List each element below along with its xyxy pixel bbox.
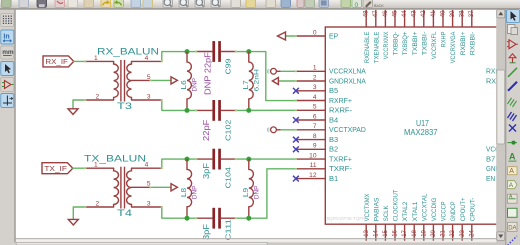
wire T4 pin4 up to TX top rail [162, 159, 196, 168]
pin 2 GNDRXLNA [296, 75, 366, 86]
svg-text:DNP: DNP [192, 185, 199, 199]
power port VCC (VCCRXLNA) [267, 68, 280, 74]
svg-text:TX_IF: TX_IF [44, 164, 67, 173]
svg-text:3: 3 [147, 200, 151, 207]
svg-text:L8: L8 [179, 188, 188, 197]
wire RX bottom rail to RXRF- [236, 109, 296, 111]
svg-text:VCCTXPAD: VCCTXPAD [329, 127, 366, 134]
svg-text:44: 44 [402, 10, 408, 17]
wire EP port [286, 35, 296, 37]
junction RX bottom rail / L6 [185, 108, 190, 113]
wire T3 pin5 stub [151, 79, 172, 81]
svg-text:3pF: 3pF [202, 163, 211, 179]
pin 23 CPOUT+ [460, 198, 467, 242]
svg-text:12: 12 [309, 172, 317, 179]
svg-text:0: 0 [355, 2, 359, 9]
pin 6 B4 [296, 114, 338, 125]
svg-text:C102: C102 [224, 120, 233, 141]
wire T3 pin3 down to RX bottom rail [162, 100, 196, 110]
svg-text:21: 21 [441, 229, 447, 236]
svg-text:XTAL1: XTAL1 [412, 201, 419, 221]
svg-text:C104: C104 [224, 167, 233, 188]
svg-text:5QFN-EP48-TQFN: 5QFN-EP48-TQFN [327, 216, 366, 221]
svg-text:CPOUT+: CPOUT+ [460, 198, 467, 222]
svg-text:41: 41 [431, 10, 437, 17]
port tag T3 center tap [171, 77, 177, 84]
svg-text:5: 5 [313, 104, 317, 111]
svg-text:4: 4 [145, 162, 149, 169]
pin 46 VCCRXMX [383, 10, 390, 60]
svg-text:CLOCKOUT: CLOCKOUT [393, 190, 400, 222]
svg-text:DA: DA [508, 225, 516, 231]
svg-text:C99: C99 [224, 59, 233, 75]
junction TX rail / L9 [246, 157, 251, 162]
pin 14 PABIAS [373, 197, 380, 241]
svg-text:TXENABLE: TXENABLE [373, 31, 380, 63]
svg-text:VCCDIG: VCCDIG [431, 198, 438, 222]
pin end markers [84, 35, 297, 208]
svg-text:13: 13 [364, 229, 370, 236]
vertical scrollbar [496, 9, 505, 245]
inductor L6 [179, 52, 198, 111]
svg-text:VCCXTAL: VCCXTAL [421, 193, 428, 221]
svg-text:0: 0 [313, 29, 317, 36]
svg-text:B1: B1 [329, 176, 338, 183]
svg-text:1: 1 [313, 65, 317, 72]
ground GND1 [68, 109, 78, 115]
wire RX top rail to RXRF+ [236, 52, 296, 101]
power port (EP) [278, 32, 286, 40]
pin 21 VCCCP [441, 201, 448, 241]
svg-text:TXBBI-: TXBBI- [421, 32, 428, 56]
svg-text:37: 37 [469, 10, 475, 17]
wire VCCRXLNA port [281, 70, 296, 72]
pin 24 CPOUT- [469, 198, 476, 242]
svg-text:EP: EP [329, 33, 339, 40]
svg-text:VCCRXMX: VCCRXMX [383, 31, 390, 59]
svg-text:PABIAS: PABIAS [373, 197, 380, 221]
pin 19 VCCXTAL [421, 193, 428, 241]
svg-text:VCCRXLNA: VCCRXLNA [329, 69, 366, 76]
no-connect X [293, 88, 299, 94]
left toolbar buttons [1, 14, 14, 108]
svg-text:VCCRXFL: VCCRXFL [431, 31, 438, 59]
svg-text:7: 7 [313, 123, 317, 130]
svg-text:XTAL2: XTAL2 [402, 201, 409, 221]
svg-text:DNP: DNP [192, 77, 199, 91]
pin 20 VCCDIG [431, 198, 438, 242]
pin 47 TXENABLE [373, 10, 380, 63]
junction TX bottom rail / L9 [246, 216, 251, 221]
svg-text:42: 42 [421, 10, 427, 17]
svg-text:3: 3 [147, 93, 151, 100]
horizontal scrollbar [16, 242, 497, 245]
svg-text:1: 1 [94, 162, 98, 169]
svg-text:3: 3 [313, 84, 317, 91]
pin 48 RXENABLE [364, 10, 371, 63]
right toolbar background [505, 9, 520, 245]
svg-text:C111: C111 [224, 219, 233, 240]
pin 4 RXRF+ [296, 94, 352, 105]
svg-text:8: 8 [313, 133, 317, 140]
svg-text:A: A [509, 168, 514, 175]
svg-text:39: 39 [450, 10, 456, 17]
svg-text:47: 47 [373, 10, 379, 17]
svg-text:2: 2 [313, 75, 317, 82]
port tag T4 center tap [171, 184, 177, 191]
pin 38 RXBBI+ [460, 10, 467, 56]
svg-text:MAX2837: MAX2837 [404, 127, 438, 137]
pin 7 VCCTXPAD [296, 123, 366, 134]
svg-text:46: 46 [383, 10, 389, 17]
capacitor C104 [195, 149, 237, 170]
svg-text:L7: L7 [241, 80, 250, 89]
pin 43 TXBBI+ [412, 10, 419, 56]
svg-text:L9: L9 [241, 188, 250, 197]
svg-text:EN: EN [486, 176, 495, 183]
svg-text:22: 22 [450, 229, 456, 236]
pin 9 B2 [296, 143, 338, 154]
svg-text:B5: B5 [329, 88, 338, 95]
svg-text:2: 2 [95, 200, 99, 207]
svg-text:40: 40 [440, 10, 446, 17]
junction TX bottom rail / L8 [185, 216, 190, 221]
pin 5 RXRF- [296, 104, 352, 115]
no-connect X [293, 117, 299, 123]
pin 16 CLOCKOUT [393, 190, 400, 242]
pin 13 VCCTXMX [364, 193, 371, 241]
top toolbar icons (cropped bottom halves) [2, 0, 385, 9]
pin 3 B5 [296, 84, 338, 95]
svg-text:2: 2 [95, 93, 99, 100]
junction RX rail / L7 top [246, 49, 251, 54]
svg-text:RXBBI-: RXBBI- [469, 32, 476, 56]
svg-text:38: 38 [460, 10, 466, 17]
wire VCCTXPAD port [281, 129, 296, 131]
svg-text:T3: T3 [117, 101, 132, 112]
pin 12 B1 [296, 172, 338, 183]
wire TX bottom rail to TXRF- [236, 169, 296, 218]
capacitor C102 [195, 100, 237, 121]
pin 37 RXBBI- [469, 10, 476, 56]
svg-text:4: 4 [313, 94, 317, 101]
svg-text:22pF: 22pF [202, 120, 211, 141]
svg-text:RX_BALUN: RX_BALUN [97, 47, 159, 58]
svg-text:RXHP: RXHP [441, 31, 448, 47]
power port VCC (VCCTXPAD) [267, 127, 280, 133]
svg-text:11: 11 [310, 162, 317, 169]
svg-text:A: A [509, 182, 514, 189]
capacitor C99 [195, 41, 237, 62]
svg-text:18: 18 [412, 229, 418, 236]
svg-text:19: 19 [421, 229, 427, 236]
wire TX_IF to T4 pin1 [73, 167, 86, 169]
pin 17 XTAL2 [402, 201, 409, 241]
svg-text:L6: L6 [179, 80, 188, 89]
svg-text:B7: B7 [486, 157, 495, 164]
svg-text:RXRF+: RXRF+ [329, 98, 352, 105]
pin 45 TXBBQ- [392, 10, 399, 56]
left toolbar background [0, 10, 16, 245]
svg-text:3pF: 3pF [202, 224, 211, 240]
wire GNDRXLNA port [278, 80, 296, 82]
pin 11 TXRF- [296, 162, 352, 173]
op-amp U17 MAX2837 body [325, 27, 512, 224]
pin 1 VCCRXLNA [296, 65, 366, 76]
hierarchical label RX_IF [43, 56, 74, 67]
wire T4 pin3 down to TX bottom rail [162, 207, 196, 218]
svg-text:T4: T4 [117, 208, 133, 219]
pin 8 B3 [296, 133, 338, 144]
svg-text:VCCRXVGA: VCCRXVGA [450, 31, 457, 63]
svg-text:B2: B2 [329, 147, 338, 154]
svg-text:RX_IF: RX_IF [45, 57, 68, 66]
svg-text:TXBBQ+: TXBBQ+ [402, 32, 409, 56]
svg-text:1: 1 [94, 55, 98, 62]
svg-text:SCLK: SCLK [383, 205, 390, 221]
junction TX rail / L8 [185, 157, 190, 162]
svg-text:TXRF+: TXRF+ [329, 157, 352, 164]
svg-text:RXBBI+: RXBBI+ [460, 32, 467, 56]
svg-text:48: 48 [364, 10, 370, 17]
svg-text:24: 24 [469, 229, 475, 236]
svg-text:20: 20 [431, 229, 437, 236]
pin 40 RXHP [440, 10, 447, 48]
inductor L9 [241, 159, 260, 218]
pin 0 EP [296, 29, 339, 40]
wire TX top rail to TXRF+ [236, 158, 296, 160]
junction RX bottom rail / L7 [246, 108, 251, 113]
pin 42 TXBBI- [421, 10, 428, 56]
svg-text:B3: B3 [329, 137, 338, 144]
right toolbar buttons [507, 10, 520, 245]
transformer T4 [85, 162, 162, 220]
no-connect X [293, 176, 299, 182]
no-connect X [293, 146, 299, 152]
svg-text:43: 43 [412, 10, 418, 17]
no-connect X [293, 137, 299, 143]
svg-text:mm: mm [2, 49, 14, 56]
svg-text:CPOUT-: CPOUT- [469, 198, 476, 222]
svg-text:RXRF-: RXRF- [329, 108, 352, 115]
wire T4 pin2 to ground [73, 207, 85, 219]
ground GND2 [68, 219, 78, 225]
capacitor C111 [195, 208, 237, 229]
svg-text:DNP 22pF: DNP 22pF [203, 52, 212, 95]
inductor L8 [179, 159, 198, 218]
svg-text:DNP: DNP [253, 185, 260, 199]
sheet border line [16, 238, 497, 241]
svg-text:6.2nH: 6.2nH [253, 69, 260, 92]
pin 39 VCCRXVGA [450, 10, 457, 63]
wire RX_IF to T3 pin1 [74, 60, 86, 62]
svg-text:GNDCP: GNDCP [450, 201, 457, 221]
svg-text:TXRF-: TXRF- [329, 166, 352, 173]
pin 18 XTAL1 [412, 201, 419, 241]
svg-text:GNDRXLNA: GNDRXLNA [329, 79, 366, 86]
wire T3 pin2 to ground [73, 100, 85, 109]
transformer T3 [85, 55, 162, 112]
svg-text:17: 17 [402, 229, 408, 236]
svg-text:BACK: BACK [374, 4, 384, 8]
svg-text:9: 9 [313, 143, 317, 150]
svg-text:4: 4 [145, 55, 149, 62]
svg-text:RXENABLE: RXENABLE [364, 31, 371, 63]
wire T4 pin5 stub [151, 186, 172, 188]
junction RX rail / L6 top [185, 49, 190, 54]
svg-text:TXBBI+: TXBBI+ [412, 32, 419, 56]
svg-text:6: 6 [313, 114, 317, 121]
svg-text:45: 45 [392, 10, 398, 17]
pin 15 SCLK [383, 205, 390, 241]
svg-text:B4: B4 [329, 118, 338, 125]
pin 44 TXBBQ+ [402, 10, 409, 56]
svg-text:VCCTXMX: VCCTXMX [364, 193, 371, 221]
pin 10 TXRF+ [296, 153, 352, 164]
svg-text:10: 10 [309, 153, 317, 160]
svg-text:TXBBQ-: TXBBQ- [393, 32, 400, 56]
pin 22 GNDCP [450, 201, 457, 241]
svg-text:VCCCP: VCCCP [441, 201, 448, 221]
top toolbar background [0, 0, 520, 10]
inductor L7 [241, 52, 260, 111]
svg-text:16: 16 [393, 229, 399, 236]
svg-text:23: 23 [460, 229, 466, 236]
svg-text:A: A [509, 152, 516, 162]
wire T3 pin4 up to RX top rail [162, 52, 196, 62]
hierarchical label TX_IF [42, 163, 73, 174]
svg-text:15: 15 [383, 229, 389, 236]
svg-text:14: 14 [373, 229, 379, 236]
pin 41 VCCRXFL [431, 10, 438, 60]
power port (GNDRXLNA) [272, 78, 278, 85]
